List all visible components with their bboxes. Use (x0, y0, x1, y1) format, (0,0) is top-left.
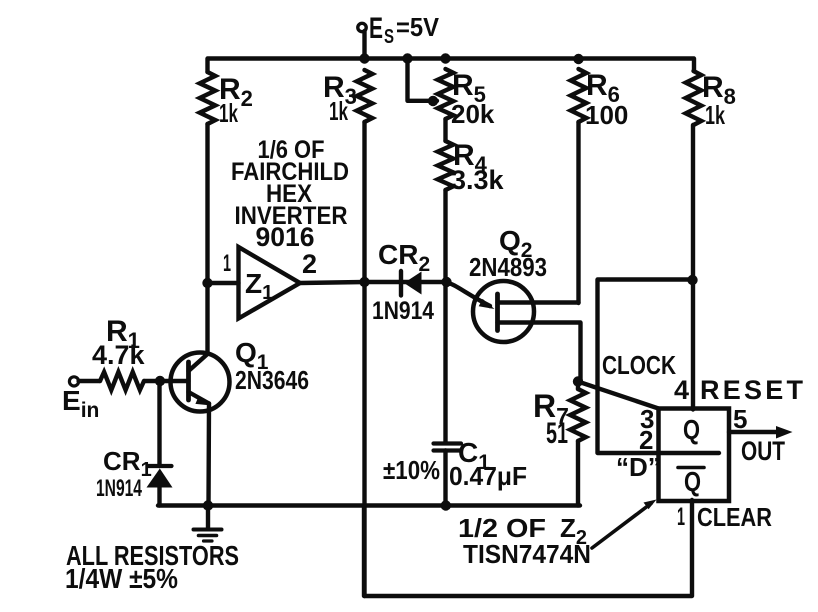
svg-text:CLOCK: CLOCK (602, 350, 676, 380)
svg-text:51: 51 (546, 417, 568, 450)
svg-text:1: 1 (223, 250, 231, 277)
svg-text:1: 1 (677, 503, 685, 531)
svg-text:4: 4 (674, 375, 689, 405)
svg-text:2N3646: 2N3646 (235, 365, 309, 395)
svg-text:TISN7474N: TISN7474N (463, 539, 591, 569)
svg-text:2: 2 (302, 249, 317, 279)
svg-text:4.7k: 4.7k (92, 340, 146, 370)
svg-text:3.3k: 3.3k (451, 165, 505, 195)
svg-text:20k: 20k (451, 99, 495, 129)
svg-text:CLEAR: CLEAR (697, 502, 772, 532)
svg-text:±10%: ±10% (383, 455, 440, 485)
svg-text:OUT: OUT (741, 436, 785, 466)
svg-text:1k: 1k (329, 96, 348, 126)
svg-text:RESET: RESET (700, 375, 804, 405)
svg-text:1N914: 1N914 (96, 475, 142, 502)
svg-text:2N4893: 2N4893 (469, 252, 547, 282)
svg-text:E: E (369, 12, 383, 45)
svg-text:=5V: =5V (396, 12, 440, 42)
svg-text:“D”: “D” (616, 452, 661, 482)
svg-text:1N914: 1N914 (372, 297, 434, 325)
svg-text:2: 2 (639, 425, 653, 455)
svg-text:S: S (384, 26, 394, 48)
svg-text:9016: 9016 (256, 222, 315, 252)
svg-text:0.47μF: 0.47μF (449, 461, 527, 491)
svg-text:1k: 1k (219, 98, 238, 128)
svg-text:Q: Q (683, 414, 700, 445)
svg-text:5: 5 (733, 404, 747, 434)
svg-text:1k: 1k (705, 100, 725, 130)
svg-text:100: 100 (585, 100, 628, 130)
svg-text:1/4W ±5%: 1/4W ±5% (65, 563, 178, 594)
svg-text:Q: Q (684, 466, 701, 497)
